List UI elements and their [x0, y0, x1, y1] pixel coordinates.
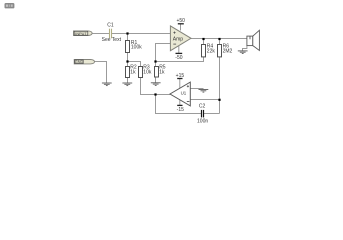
wire: R6 top pin — [219, 39, 221, 45]
wire: Amp inverting input down to R5 node — [156, 44, 171, 62]
svg-text:100k: 100k — [131, 44, 142, 50]
wire: R2 bottom to ground — [127, 78, 129, 83]
wire: U1 inverting input to R6/C2 node — [190, 99, 219, 101]
svg-text:+50: +50 — [176, 18, 185, 24]
svg-text:22k: 22k — [207, 48, 216, 54]
ground (GND tag) — [102, 83, 112, 86]
node junction (amp output / R4) — [202, 38, 204, 40]
node junction (amp output / R6) — [218, 38, 220, 40]
wire: R1 bottom to divider node, R2 top pin — [127, 53, 129, 67]
wire: U1 non-inverting input to ground — [190, 88, 203, 90]
wire: R1 top stub from node A — [127, 34, 129, 41]
svg-text:2M2: 2M2 — [223, 48, 233, 54]
wire: Amp output to speaker — [191, 38, 247, 40]
wire: servo node down to C2 — [156, 95, 201, 114]
resistor R4 — [202, 44, 216, 57]
power +50 rail — [176, 18, 185, 31]
node junction (R1 / R2 / R3 divider) — [126, 60, 128, 62]
resistor R1 — [126, 40, 143, 52]
resistor R6 — [218, 44, 233, 57]
capacitor C1 — [102, 23, 122, 43]
wire: R5 node to R4 bottom pin — [156, 57, 204, 62]
svg-text:C2: C2 — [199, 104, 206, 110]
svg-text:-50: -50 — [175, 55, 182, 61]
svg-text:See Text: See Text — [102, 37, 122, 43]
svg-text:U1: U1 — [181, 90, 187, 95]
power +15 rail — [176, 73, 185, 93]
wire: C2 to R6 bottom corner — [204, 113, 220, 115]
ground (R5) — [151, 83, 161, 86]
wire: speaker bottom pin to ground — [243, 46, 247, 51]
svg-text:+15: +15 — [176, 73, 185, 79]
node junction (R5 top / feedback) — [154, 60, 156, 62]
wire: INPUT tag to C1 — [92, 33, 109, 35]
node junction (servo: R3 / U1 out / C2 loop) — [154, 93, 156, 95]
resistor R3 — [139, 65, 152, 78]
svg-text:1k: 1k — [130, 70, 136, 76]
svg-text:INPUT: INPUT — [75, 32, 87, 36]
wire: R5 top pin — [155, 62, 157, 67]
ground (U1 + input) — [199, 90, 209, 93]
resistor R5 — [155, 65, 166, 77]
speaker LS1 — [247, 30, 260, 50]
wire: R3 bottom down to U1 output line — [141, 78, 171, 95]
power -50 rail — [175, 45, 182, 62]
INPUT port tag — [74, 31, 93, 36]
GND port tag — [74, 60, 94, 65]
svg-text:10k: 10k — [143, 70, 152, 76]
logo badge top-left — [5, 3, 15, 8]
ground (R2) — [122, 83, 132, 86]
op-amp Amp — [170, 26, 191, 51]
svg-text:C1: C1 — [107, 23, 114, 29]
svg-text:1k: 1k — [159, 70, 165, 76]
wire: R5 bottom to ground — [155, 77, 157, 83]
node junction (C1 / R1 / amp + input) — [126, 32, 128, 34]
svg-text:100n: 100n — [197, 119, 208, 125]
wire: R4 top pin — [203, 39, 205, 45]
ground (speaker) — [238, 51, 248, 54]
op-amp U1 — [170, 82, 190, 106]
wire: R6 bottom down through U1 - node to C2 loop corner — [219, 57, 221, 114]
svg-text:Amp: Amp — [173, 36, 184, 42]
svg-text:GND: GND — [75, 60, 84, 64]
wire: divider node to R3 top pin — [128, 62, 141, 67]
resistor R2 — [126, 65, 137, 78]
capacitor C2 — [197, 104, 208, 125]
svg-text:-15: -15 — [177, 107, 184, 113]
power -15 rail — [177, 95, 184, 113]
wire: C1 to Amp non-inverting input — [112, 33, 171, 35]
node junction (U1 - input / R6 / C2) — [218, 99, 220, 101]
wire: GND tag to ground — [94, 62, 106, 84]
